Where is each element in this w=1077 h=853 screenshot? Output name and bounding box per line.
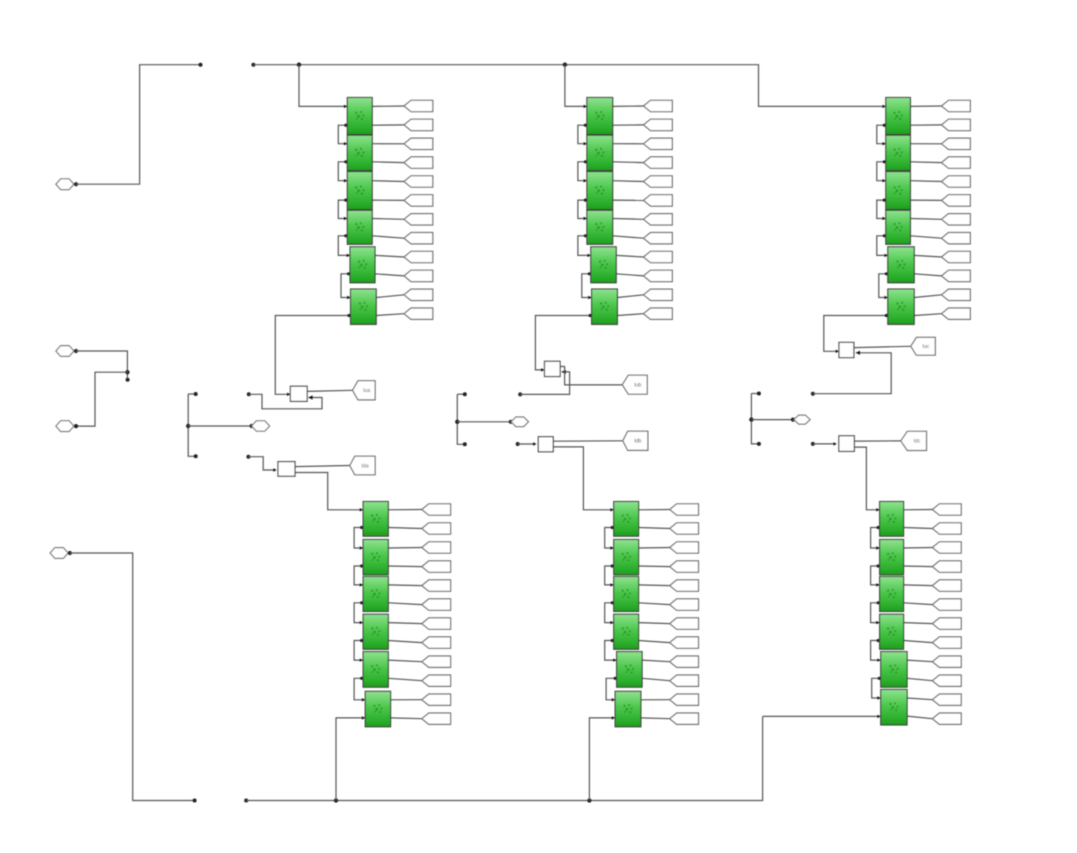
svg-text:Idb: Idb — [634, 439, 641, 445]
wire phaseA feedback loop into M1 — [249, 394, 322, 409]
wire A-upper cell5 out2 to tag — [375, 274, 404, 276]
port nub A-upper cell1 in2 — [344, 124, 347, 127]
wire B-upper cell5 out1 to tag — [616, 255, 643, 257]
junction dot node N1 — [125, 370, 129, 374]
wire P2 to node — [76, 351, 127, 379]
arrow into A-upper cell6 in1 — [347, 296, 350, 299]
goto tag B-lower g8 — [670, 637, 699, 648]
wire phaseA M2 to lower arm cell1 — [295, 473, 363, 510]
wire B-lower cell3 out2 to tag — [639, 603, 670, 605]
wire phaseC node to hexagon port — [751, 419, 793, 421]
wire B-upper cell3 out1 to tag — [613, 180, 644, 183]
wire C-lower cell2 out2 to tag — [904, 565, 933, 568]
port hexagon phaseA phase terminal — [252, 421, 270, 431]
wire A-upper series link cell2-cell3 — [338, 162, 347, 181]
wire A-lower series link cell2-cell3 — [354, 566, 363, 585]
goto tag C-lower g12 — [932, 713, 961, 724]
wire A-lower cell3 out1 to tag — [388, 584, 422, 587]
port nub C-upper cell1 in2 — [883, 124, 886, 127]
wire B-upper cell6 out2 to tag — [617, 314, 643, 316]
wire C-lower cell4 out2 to tag — [904, 641, 933, 643]
wire B-lower cell5 out1 to tag — [642, 660, 670, 662]
wire bottom bus corner to C-lower cell6 in2 — [763, 715, 881, 717]
goto tag B-lower g4 — [670, 561, 699, 572]
block B-upper cell4 (green H-bridge cell) — [587, 210, 613, 244]
wire A-lower cell6 out1 to tag — [391, 699, 422, 701]
wire C-lower cell2 out1 to tag — [904, 547, 933, 550]
block C-lower cell2 (green H-bridge cell) — [880, 540, 904, 575]
port hexagon P4 (bottom left) — [50, 548, 68, 559]
goto tag C-lower g1 — [932, 504, 961, 515]
port nub A-upper cell4 in2 — [344, 234, 347, 237]
block B-lower cell1 (green H-bridge cell) — [614, 502, 639, 537]
wire A-lower cell6 to bottom bus — [336, 718, 365, 801]
goto tag A-lower g3 — [422, 542, 451, 553]
wire P1 to top bus — [76, 65, 199, 185]
wire B-lower series link cell5-cell6 — [606, 678, 617, 700]
wire A-upper cell4 out2 to tag — [372, 236, 404, 238]
port nub B-upper cell4 in2 — [584, 234, 587, 237]
wire stub dot phaseB lower — [463, 442, 467, 446]
goto tag C-upper g10 — [942, 270, 971, 281]
arrow into B-lower cell3 in1 — [610, 583, 613, 586]
goto tag B-upper g6 — [644, 195, 673, 206]
goto tag A-lower g10 — [422, 675, 451, 686]
arrow into A-lower cell5 in1 — [360, 659, 363, 662]
arrow into B-lower cell2 in1 — [610, 546, 613, 549]
wire C-upper series link cell1-cell2 — [877, 125, 886, 144]
wire A-lower cell2 out1 to tag — [388, 547, 422, 550]
port nub C-lower cell3 in2 — [877, 601, 880, 604]
wire phaseC M2 output to goto tag — [854, 440, 901, 442]
wire A-upper cell6 out2 to tag — [376, 314, 404, 316]
svg-text:Ida: Ida — [361, 463, 368, 469]
connection dot at P1 — [74, 182, 78, 186]
wire phaseA node bracket — [188, 394, 195, 456]
arrow into C-lower cell6 in1 — [877, 696, 880, 699]
port nub C-upper cell4 in2 — [883, 234, 886, 237]
goto tag phaseB Idb — [623, 431, 648, 450]
block C-lower cell1 (green H-bridge cell) — [880, 502, 904, 537]
goto tag C-upper g1 — [942, 100, 971, 111]
arrow into C-lower cell6 in2 — [877, 715, 880, 718]
wire C-upper cell5 out1 to tag — [914, 255, 941, 257]
block C-lower cell4 (green H-bridge cell) — [880, 614, 904, 649]
junction dot bottom bus / phase A — [334, 798, 338, 802]
goto tag C-lower g5 — [932, 580, 961, 591]
wire phaseB node to hexagon port — [457, 421, 511, 423]
wire A-upper cell5 out1 to tag — [375, 255, 404, 257]
block C-lower cell3 (green H-bridge cell) — [880, 577, 904, 612]
wire B-upper cell2 out2 to tag — [613, 161, 644, 164]
bottom DC bus wire — [246, 716, 762, 800]
port nub phaseA cell6 in2 — [347, 314, 350, 317]
block B-lower cell3 (green H-bridge cell) — [614, 577, 639, 612]
wire phaseB M2 to lower arm cell1 — [553, 447, 614, 510]
goto tag A-upper g1 — [404, 100, 433, 111]
goto tag B-upper g12 — [644, 308, 673, 319]
wire top bus down to B-upper cell1 in1 — [565, 65, 587, 107]
block B-lower cell2 (green H-bridge cell) — [614, 540, 639, 575]
wire B-lower cell2 out2 to tag — [639, 565, 670, 568]
wire stub dot phaseC upper — [757, 392, 761, 396]
wire C-lower cell5 out2 to tag — [907, 678, 932, 680]
wire B-upper cell4 out2 to tag — [613, 236, 644, 238]
wire A-lower cell4 out2 to tag — [388, 641, 422, 643]
arrow into A-upper cell3 in1 — [344, 179, 347, 182]
wire phaseA M2 output to goto tag — [295, 466, 350, 467]
arrow into phaseA M2 — [273, 468, 276, 471]
port nub B-lower cell1 in2 — [611, 526, 614, 529]
block C-upper cell3 (green H-bridge cell) — [886, 172, 911, 210]
wire C-upper cell6 out1 to tag — [914, 295, 941, 298]
block A-upper cell6 (green H-bridge cell) — [351, 289, 377, 324]
goto tag C-upper g12 — [942, 308, 971, 319]
wire phaseB feedback loop into M1 — [520, 372, 569, 395]
wire B-lower series link cell2-cell3 — [605, 566, 614, 585]
goto tag B-upper g9 — [644, 251, 673, 262]
wire B-upper cell6 out1 to tag — [617, 295, 643, 298]
goto tag A-upper g7 — [404, 214, 433, 225]
wire C-upper cell1 out2 to tag — [910, 124, 941, 126]
wire B-lower series link cell4-cell5 — [605, 641, 617, 661]
goto tag A-upper g11 — [404, 289, 433, 300]
goto tag A-upper g8 — [404, 233, 433, 244]
arrow into phaseB M1 right port — [562, 370, 566, 374]
arrow into A-upper cell2 in1 — [344, 142, 347, 145]
wire phaseC node bracket — [751, 394, 758, 444]
goto tag A-upper g6 — [404, 195, 433, 206]
port nub A-lower cell3 in2 — [360, 601, 363, 604]
block A-lower cell2 (green H-bridge cell) — [363, 540, 388, 575]
wire top bus corner to C-upper cell1 in1 — [759, 104, 886, 107]
wire C-lower cell1 out1 to tag — [904, 509, 933, 511]
block B-lower cell4 (green H-bridge cell) — [614, 614, 639, 649]
wire C-upper cell3 out2 to tag — [910, 199, 941, 201]
wire A-upper series link cell4-cell5 — [338, 236, 350, 256]
wire A-upper cell6 out1 to tag — [376, 295, 404, 298]
arrow into A-lower cell6 in2 — [362, 716, 365, 719]
block C-upper cell2 (green H-bridge cell) — [886, 135, 911, 170]
wire phaseA node to hexagon port — [188, 425, 251, 427]
goto tag B-lower g2 — [670, 523, 699, 534]
port nub C-upper cell5 in2 — [885, 272, 888, 275]
arrow into phaseA M1 right port — [308, 395, 312, 399]
wire phaseB M2 output to goto tag — [553, 440, 623, 442]
arrow into C-upper cell1 in1 — [882, 105, 885, 108]
goto tag B-upper g11 — [644, 289, 673, 300]
goto tag B-upper g5 — [644, 176, 673, 187]
wire C-lower cell5 out1 to tag — [907, 660, 932, 662]
arrow into B-upper cell3 in1 — [584, 179, 587, 182]
goto tag A-upper g10 — [404, 270, 433, 281]
wire C-upper cell3 out1 to tag — [910, 180, 941, 183]
goto tag phaseC Idc — [901, 431, 927, 450]
goto tag A-upper g3 — [404, 138, 433, 149]
goto tag C-upper g8 — [942, 233, 971, 244]
wire B-upper cell4 out1 to tag — [613, 218, 644, 221]
wire start dot phaseC loop — [811, 392, 815, 396]
arrow into B-upper cell5 in1 — [587, 254, 590, 257]
wire phaseC upper arm cell6 to measure block M1 — [824, 316, 888, 352]
wire phaseB M1 output to goto tag — [560, 367, 622, 385]
arrow into A-upper cell5 in1 — [347, 254, 350, 257]
wire phaseC M2 to lower arm cell1 — [854, 447, 879, 510]
wire B-lower cell6 out1 to tag — [641, 699, 670, 701]
arrow into C-lower cell4 in1 — [876, 621, 879, 624]
wire C-upper cell4 out1 to tag — [910, 218, 941, 221]
wire B-lower cell1 out1 to tag — [639, 509, 670, 511]
arrow into phaseB lower cell1 in1 — [610, 508, 613, 511]
goto tag A-lower g8 — [422, 637, 451, 648]
block C-upper cell4 (green H-bridge cell) — [886, 210, 911, 244]
arrow into B-lower cell5 in1 — [613, 659, 616, 662]
goto tag A-upper g12 — [404, 308, 433, 319]
port nub B-upper cell5 in2 — [588, 272, 591, 275]
arrow into phaseB M1 — [541, 368, 544, 371]
wire B-lower cell6 to bottom bus — [589, 718, 615, 801]
wire A-upper cell1 out2 to tag — [372, 124, 404, 126]
wire C-lower series link cell4-cell5 — [871, 641, 881, 661]
arrow into A-upper cell1 in1 — [344, 105, 347, 108]
port nub phaseC cell6 in2 — [885, 314, 888, 317]
arrow into phaseA M1 — [287, 393, 290, 396]
arrow into A-lower cell3 in1 — [360, 583, 363, 586]
arrow into C-lower cell3 in1 — [876, 583, 879, 586]
goto tag C-lower g10 — [932, 675, 961, 686]
wire B-upper series link cell4-cell5 — [578, 236, 591, 256]
arrow into B-upper cell2 in1 — [584, 142, 587, 145]
goto tag C-upper g6 — [942, 195, 971, 206]
port nub B-lower cell5 in2 — [614, 677, 617, 680]
wire A-upper cell4 out1 to tag — [372, 218, 404, 221]
wire top bus down to A-upper cell1 in1 — [299, 65, 347, 107]
arrow into A-lower cell6 in1 — [362, 698, 365, 701]
measure block phaseB M1 — [545, 361, 561, 376]
goto tag C-upper g7 — [942, 214, 971, 225]
arrow into B-upper cell1 in1 — [584, 105, 587, 108]
block A-lower cell4 (green H-bridge cell) — [363, 614, 388, 649]
goto tag C-lower g4 — [932, 561, 961, 572]
block B-upper cell1 (green H-bridge cell) — [587, 98, 613, 135]
block C-lower cell6 (green H-bridge cell) — [881, 690, 907, 726]
wire B-lower series link cell3-cell4 — [605, 603, 614, 623]
wire B-lower cell2 out1 to tag — [639, 547, 670, 550]
wire B-lower cell5 out2 to tag — [642, 678, 670, 680]
arrow into B-upper cell6 in1 — [588, 296, 591, 299]
wire stub phaseC node upper — [751, 393, 758, 395]
connection dot at phaseC hexagon — [791, 418, 795, 422]
port nub B-upper cell1 in2 — [584, 124, 587, 127]
arrow into B-lower cell4 in1 — [610, 621, 613, 624]
wire C-upper cell4 out2 to tag — [910, 236, 941, 238]
arrow into C-upper cell3 in1 — [882, 179, 885, 182]
port nub C-lower cell2 in2 — [877, 564, 880, 567]
block C-upper cell6 (green H-bridge cell) — [888, 289, 914, 324]
wire start dot of top DC bus — [251, 63, 255, 67]
wire A-upper cell2 out1 to tag — [372, 143, 404, 145]
wire end dot — [199, 63, 203, 67]
block B-lower cell5 (green H-bridge cell) — [617, 652, 643, 688]
wire A-upper cell1 out1 to tag — [372, 105, 404, 107]
arrow into C-upper cell6 in1 — [884, 296, 887, 299]
measure block phaseC M2 — [839, 436, 854, 452]
port nub A-lower cell4 in2 — [360, 639, 363, 642]
port nub A-upper cell5 in2 — [347, 272, 350, 275]
wire A-lower cell5 out2 to tag — [388, 678, 422, 680]
port nub C-upper cell2 in2 — [883, 160, 886, 163]
connection dot at phaseB hexagon — [509, 420, 513, 424]
connection dot at P2 — [74, 349, 78, 353]
goto tag A-lower g9 — [422, 656, 451, 667]
wire C-upper cell5 out2 to tag — [914, 274, 941, 276]
junction dot top bus / phase B — [563, 62, 567, 66]
arrow into A-lower cell2 in1 — [360, 546, 363, 549]
block A-upper cell5 (green H-bridge cell) — [350, 247, 375, 283]
goto tag B-lower g5 — [670, 580, 699, 591]
wire C-upper series link cell2-cell3 — [877, 162, 886, 181]
wire C-upper series link cell5-cell6 — [879, 274, 888, 298]
wire phaseB node bracket — [457, 394, 464, 444]
arrow into C-upper cell4 in1 — [882, 217, 885, 220]
wire into phaseA M2 — [248, 457, 275, 470]
goto tag B-upper g10 — [644, 270, 673, 281]
wire end dot bottom left — [193, 799, 197, 803]
measure block phaseC M1 — [839, 342, 854, 357]
goto tag A-upper g2 — [404, 119, 433, 130]
top DC bus wire — [253, 65, 758, 104]
wire B-upper cell2 out1 to tag — [613, 143, 644, 145]
goto tag C-upper g4 — [942, 157, 971, 168]
wire C-lower cell1 out2 to tag — [904, 528, 933, 529]
goto tag B-lower g6 — [670, 599, 699, 610]
goto tag B-upper g8 — [644, 233, 673, 244]
goto tag A-upper g9 — [404, 251, 433, 262]
wire into phaseC M2 — [813, 443, 836, 445]
wire B-upper series link cell2-cell3 — [578, 162, 587, 181]
svg-text:Iua: Iua — [363, 388, 370, 394]
goto tag phaseC Iuc — [911, 337, 936, 355]
block A-lower cell1 (green H-bridge cell) — [363, 502, 388, 537]
goto tag C-lower g8 — [932, 637, 961, 648]
block C-lower cell5 (green H-bridge cell) — [881, 652, 907, 688]
connection dot at phaseA hexagon — [250, 424, 254, 428]
junction dot top bus / phase A — [297, 62, 301, 66]
port nub C-upper cell3 in2 — [883, 199, 886, 202]
goto tag A-lower g6 — [422, 599, 451, 610]
arrow into phaseC M1 — [836, 350, 839, 353]
port nub A-lower cell5 in2 — [360, 677, 363, 680]
port nub phaseB cell6 in2 — [589, 314, 592, 317]
wire stub dot phaseC lower — [757, 442, 761, 446]
block A-upper cell1 (green H-bridge cell) — [347, 98, 372, 135]
wire B-upper cell5 out2 to tag — [616, 274, 643, 276]
wire A-upper cell3 out2 to tag — [372, 199, 404, 201]
wire stub dot phaseA lower — [194, 454, 198, 458]
measure block phaseA M1 — [290, 386, 307, 401]
wire A-upper cell2 out2 to tag — [372, 161, 404, 164]
port hexagon P3 (mid left lower) — [56, 421, 74, 432]
wire into phaseB M2 — [518, 443, 536, 445]
wire node N1 to P3 — [76, 372, 127, 426]
wire start dot phaseA loop — [247, 392, 251, 396]
wire C-lower series link cell1-cell2 — [871, 528, 880, 549]
wire C-lower cell6 out1 to tag — [907, 698, 932, 700]
wire C-upper series link cell3-cell4 — [877, 200, 886, 218]
wire phaseA upper arm cell6 to measure block M1 — [275, 316, 350, 395]
wire A-lower cell5 out1 to tag — [388, 660, 422, 662]
goto tag phaseA Iua — [353, 381, 376, 400]
port nub A-lower cell2 in2 — [360, 564, 363, 567]
goto tag B-lower g12 — [670, 713, 699, 724]
port nub B-upper cell3 in2 — [584, 199, 587, 202]
wire stub dot phaseB upper — [463, 392, 467, 396]
goto tag A-upper g4 — [404, 157, 433, 168]
block A-lower cell3 (green H-bridge cell) — [363, 577, 388, 612]
wire A-lower cell1 out2 to tag — [388, 528, 422, 529]
goto tag B-lower g11 — [670, 694, 699, 705]
goto tag A-lower g1 — [422, 504, 451, 515]
port hexagon P2 (mid left upper) — [56, 346, 74, 357]
block B-upper cell5 (green H-bridge cell) — [591, 247, 616, 283]
goto tag phaseB Iub — [622, 375, 647, 394]
svg-text:Idc: Idc — [913, 439, 920, 445]
port nub C-lower cell5 in2 — [878, 677, 881, 680]
goto tag B-lower g10 — [670, 675, 699, 686]
port nub A-upper cell3 in2 — [344, 199, 347, 202]
wire phaseC feedback loop into M1 — [813, 353, 891, 394]
wire stub phaseA node upper — [188, 393, 195, 395]
goto tag A-lower g12 — [422, 713, 451, 724]
measure block phaseA M2 — [278, 462, 295, 477]
wire C-upper series link cell4-cell5 — [877, 236, 888, 256]
block B-lower cell6 (green H-bridge cell) — [615, 691, 641, 727]
arrow into C-lower cell2 in1 — [876, 546, 879, 549]
goto tag C-upper g9 — [942, 251, 971, 262]
wire B-upper cell1 out2 to tag — [613, 124, 644, 126]
measure block phaseB M2 — [538, 437, 553, 452]
wire start dot phaseB loop — [518, 392, 522, 396]
wire C-lower series link cell2-cell3 — [871, 566, 880, 585]
arrow into A-lower cell4 in1 — [360, 621, 363, 624]
block C-upper cell1 (green H-bridge cell) — [886, 98, 911, 135]
wire C-upper cell1 out1 to tag — [910, 105, 941, 107]
wire C-lower series link cell3-cell4 — [871, 603, 880, 623]
goto tag B-lower g3 — [670, 542, 699, 553]
arrow into B-lower cell6 in1 — [612, 698, 615, 701]
block A-lower cell6 (green H-bridge cell) — [365, 691, 390, 727]
goto tag A-lower g4 — [422, 561, 451, 572]
port hexagon P1 (top left) — [56, 179, 74, 190]
goto tag A-lower g5 — [422, 580, 451, 591]
wire A-lower cell4 out1 to tag — [388, 623, 422, 624]
goto tag C-lower g2 — [932, 523, 961, 534]
wire C-lower cell3 out1 to tag — [904, 584, 933, 587]
wire B-lower cell4 out2 to tag — [639, 641, 670, 643]
arrow into phaseC M1 right port — [856, 351, 860, 355]
arrow into phaseC M2 — [833, 442, 836, 445]
port nub B-lower cell4 in2 — [611, 639, 614, 642]
wire C-lower cell6 out2 to tag — [907, 716, 932, 719]
arrow into A-upper cell4 in1 — [344, 217, 347, 220]
goto tag B-lower g9 — [670, 656, 699, 667]
wire B-upper series link cell1-cell2 — [578, 125, 587, 144]
port hexagon phaseB phase terminal — [511, 417, 528, 427]
wire C-upper cell6 out2 to tag — [914, 314, 941, 316]
port nub C-lower cell1 in2 — [877, 526, 880, 529]
goto tag A-lower g7 — [422, 618, 451, 629]
wire phaseC M1 output to goto tag — [854, 346, 911, 347]
